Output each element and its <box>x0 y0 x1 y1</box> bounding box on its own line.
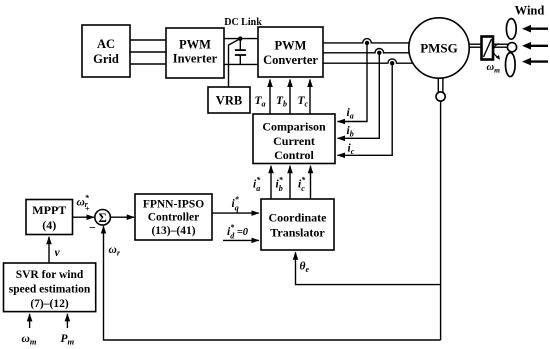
svg-text:v: v <box>55 247 61 259</box>
svg-text:(7)–(12): (7)–(12) <box>30 298 68 310</box>
svg-text:Wind: Wind <box>515 4 545 18</box>
svg-text:DC Link: DC Link <box>224 17 262 28</box>
svg-text:PMSG: PMSG <box>420 41 458 56</box>
svg-text:Ta: Ta <box>255 95 266 109</box>
svg-text:Translator: Translator <box>270 225 325 239</box>
svg-text:AC: AC <box>97 37 115 51</box>
svg-text:VRB: VRB <box>216 94 242 108</box>
svg-text:Tc: Tc <box>298 95 309 109</box>
svg-text:SVR for wind: SVR for wind <box>16 269 84 281</box>
svg-text:i*d =0: i*d =0 <box>227 223 249 241</box>
svg-text:ωm: ωm <box>487 62 501 75</box>
svg-text:speed estimation: speed estimation <box>9 284 91 296</box>
svg-text:ωr: ωr <box>109 244 121 258</box>
svg-text:i*q: i*q <box>232 195 240 213</box>
svg-text:(4): (4) <box>42 218 56 232</box>
svg-text:ib: ib <box>347 125 354 139</box>
svg-text:PWM: PWM <box>275 39 307 53</box>
svg-text:MPPT: MPPT <box>32 203 66 217</box>
svg-text:ia: ia <box>347 107 354 121</box>
svg-text:Converter: Converter <box>263 53 318 67</box>
svg-text:θe: θe <box>300 261 310 275</box>
svg-text:FPNN-IPSO: FPNN-IPSO <box>143 199 204 211</box>
svg-text:Inverter: Inverter <box>173 52 218 66</box>
svg-text:ic: ic <box>348 143 355 157</box>
svg-text:Coordinate: Coordinate <box>269 211 328 225</box>
svg-text:(13)–(41): (13)–(41) <box>151 225 195 237</box>
svg-text:+: + <box>85 204 90 214</box>
svg-text:i*c: i*c <box>298 176 306 194</box>
svg-text:Grid: Grid <box>93 52 119 66</box>
svg-text:Comparison: Comparison <box>262 120 326 134</box>
svg-text:i*a: i*a <box>253 176 261 194</box>
svg-text:PWM: PWM <box>179 38 211 52</box>
svg-text:i*b: i*b <box>276 176 284 194</box>
svg-text:Pm: Pm <box>61 333 75 347</box>
svg-text:Controller: Controller <box>148 212 200 224</box>
svg-text:Control: Control <box>274 148 314 162</box>
svg-text:−: − <box>89 221 96 235</box>
svg-text:Current: Current <box>273 134 315 148</box>
svg-text:Σ: Σ <box>98 210 107 225</box>
svg-text:Tb: Tb <box>276 95 287 109</box>
svg-text:ωm: ωm <box>22 333 37 347</box>
